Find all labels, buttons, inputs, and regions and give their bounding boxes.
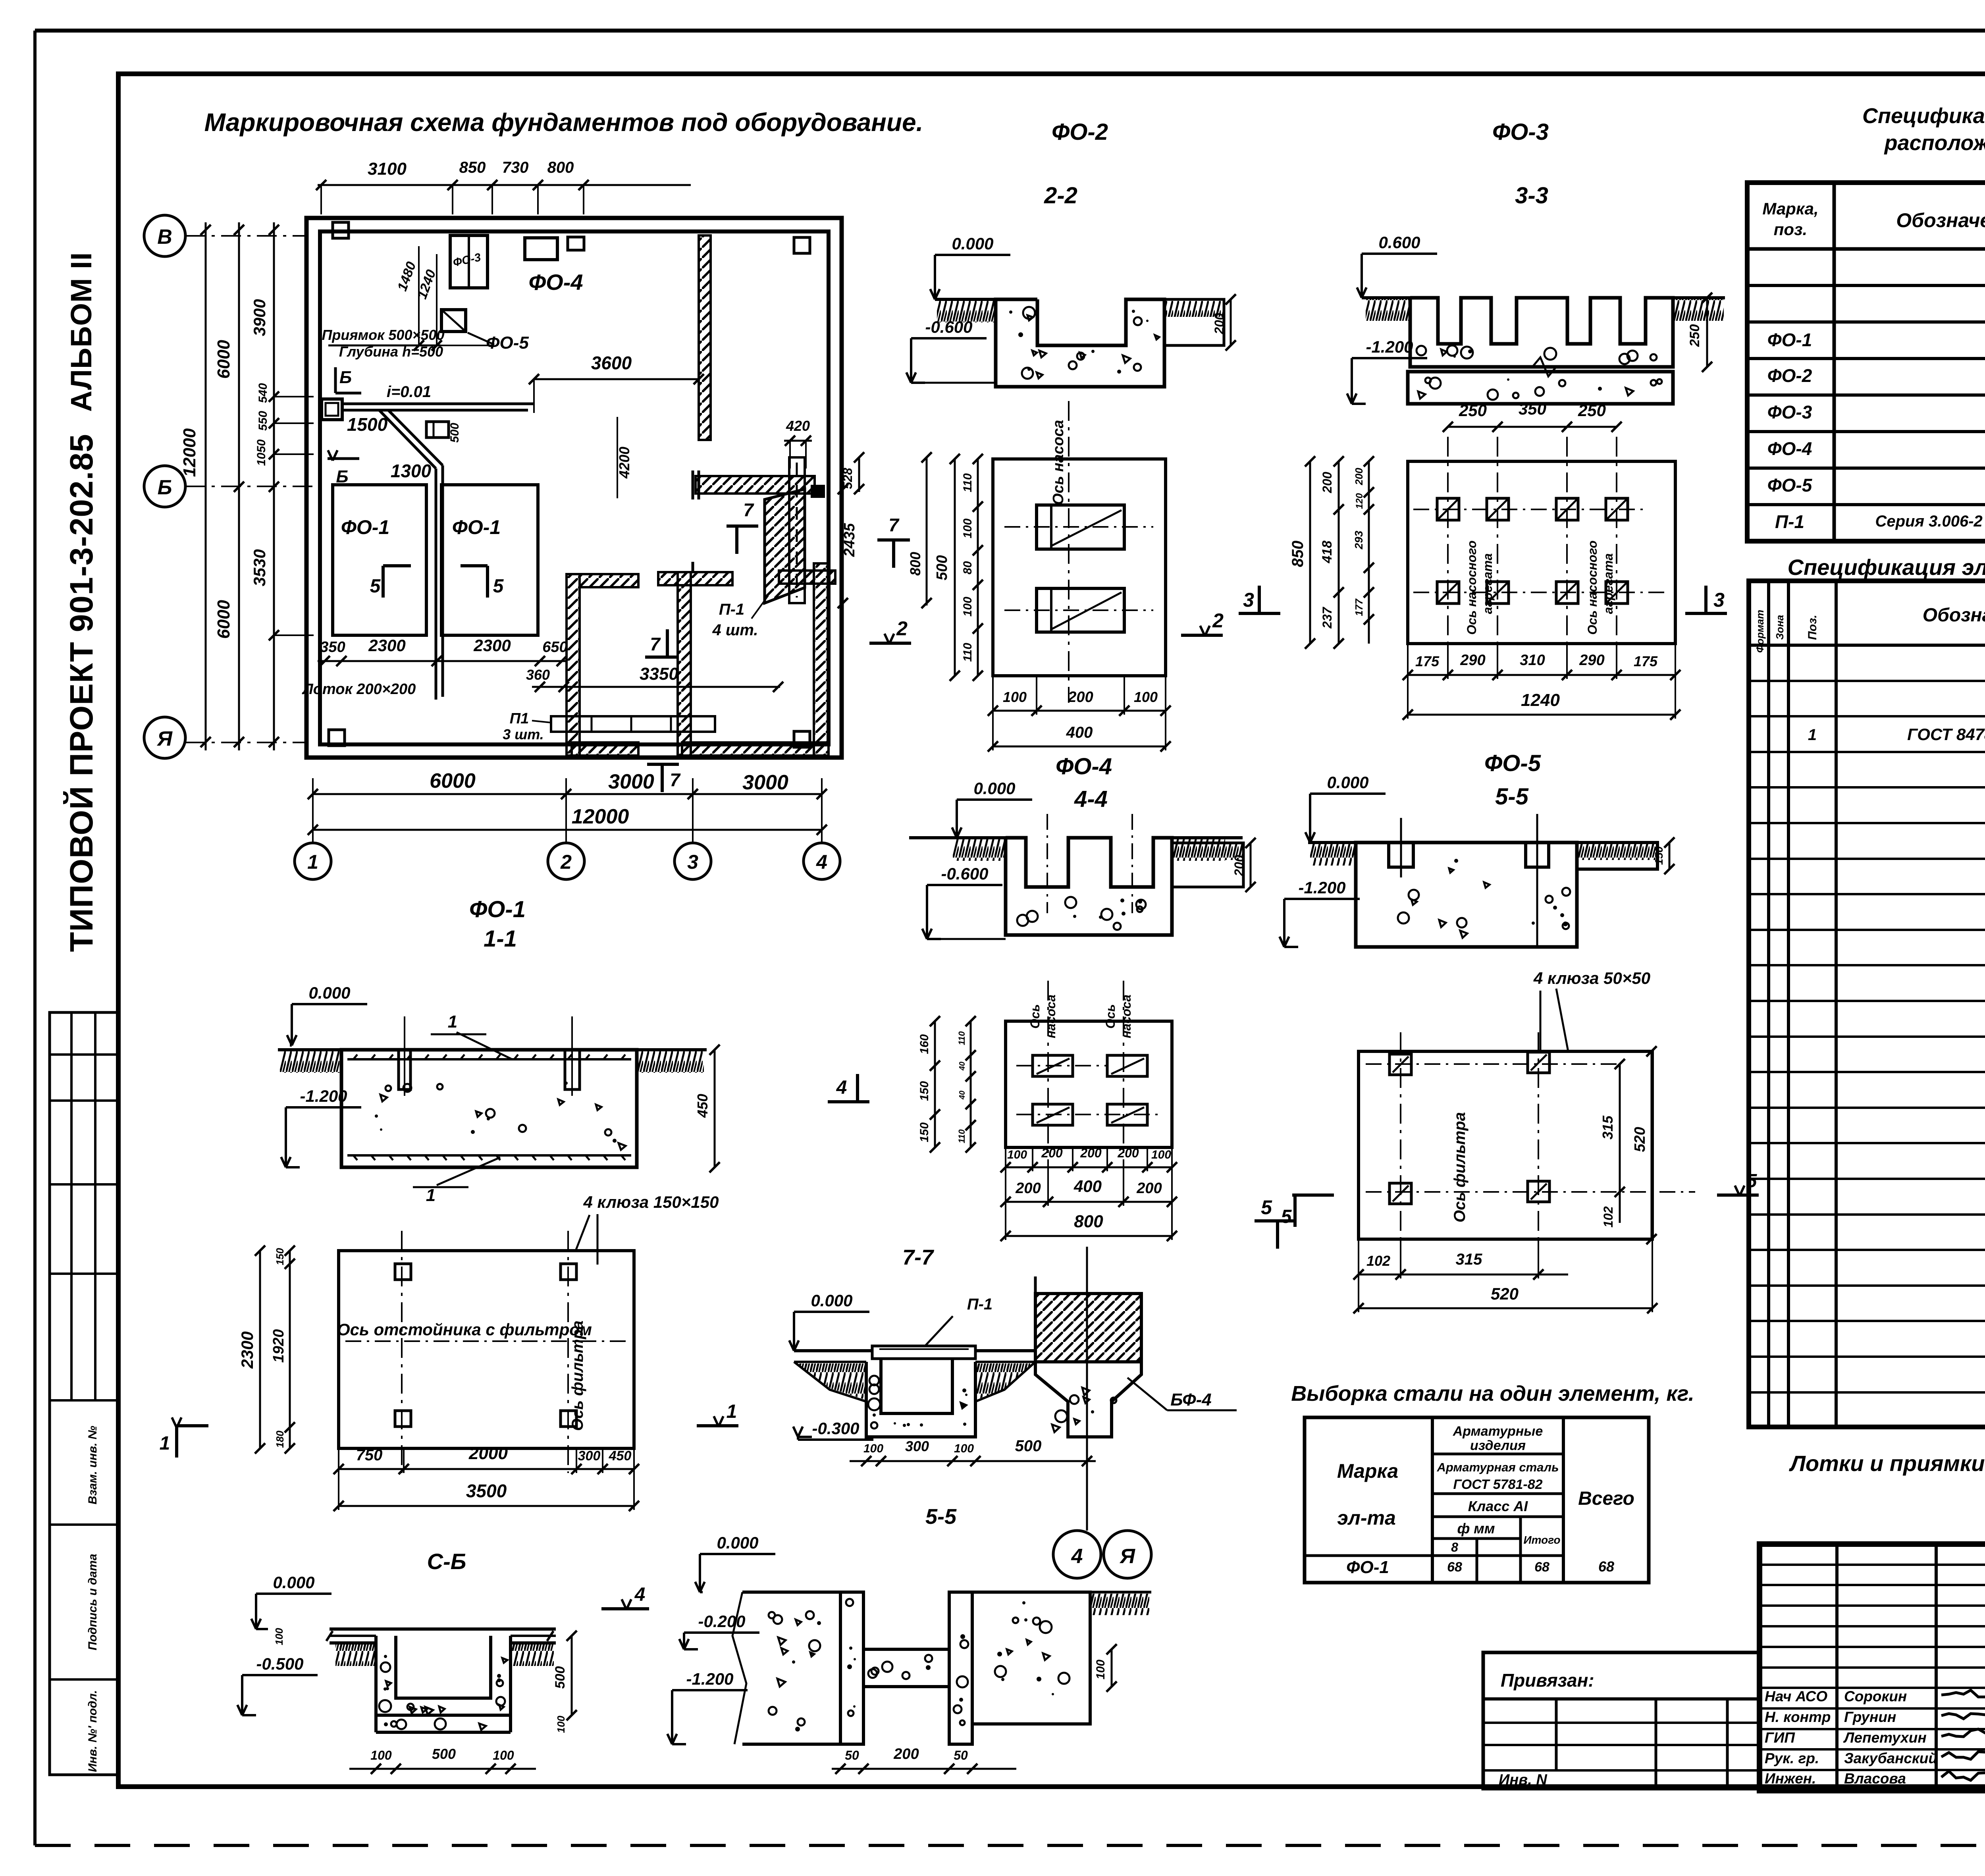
section 1-1 right dim 450	[714, 1050, 716, 1167]
plan 1-1 vertical axes	[401, 1231, 403, 1473]
spec table 1 grid	[1747, 183, 1985, 541]
privyazan box grid	[1483, 1722, 1760, 1724]
plan 2-2 bottom dims	[993, 710, 1166, 712]
svg-text:Лоток 200×200: Лоток 200×200	[302, 681, 416, 698]
svg-text:100: 100	[954, 1442, 974, 1455]
svg-text:5-5: 5-5	[925, 1505, 957, 1529]
plan pit walls lower middle - left L	[567, 574, 580, 756]
section 7-7 bottom dims	[850, 1460, 1096, 1462]
svg-text:293: 293	[1353, 530, 1365, 549]
section 2-2 ground right	[1164, 299, 1224, 345]
svg-text:П-1: П-1	[1775, 511, 1804, 532]
svg-text:4 клюза 150×150: 4 клюза 150×150	[583, 1193, 719, 1211]
svg-text:7: 7	[650, 634, 661, 654]
svg-text:6000: 6000	[214, 340, 233, 379]
svg-text:150: 150	[918, 1122, 931, 1142]
svg-text:200: 200	[1117, 1146, 1139, 1160]
svg-text:120: 120	[1354, 493, 1365, 509]
svg-text:100: 100	[961, 597, 974, 617]
svg-text:ФО-3: ФО-3	[1492, 119, 1549, 145]
svg-text:250: 250	[1687, 324, 1702, 347]
svg-text:100: 100	[863, 1442, 883, 1455]
section marks 2 and 3 between plans	[1181, 634, 1223, 637]
svg-text:5: 5	[370, 576, 381, 597]
plan building inner wall	[320, 231, 829, 744]
svg-text:Зона: Зона	[1774, 615, 1786, 640]
svg-text:2300: 2300	[368, 636, 405, 655]
svg-text:3600: 3600	[591, 353, 632, 373]
plan FO-5 anchor squares	[1389, 1054, 1411, 1075]
plan pit walls lower right corner	[682, 742, 829, 756]
plan dim 350 3350	[532, 686, 780, 688]
svg-text:В: В	[157, 226, 172, 249]
plan channel horizontal	[343, 403, 534, 405]
plan foundation FO-5 block	[441, 310, 466, 332]
plan section mark Б lower	[328, 457, 359, 460]
svg-text:-0.300: -0.300	[812, 1419, 859, 1438]
svg-text:750: 750	[356, 1446, 383, 1464]
svg-text:100: 100	[1007, 1148, 1027, 1161]
svg-text:500: 500	[1015, 1437, 1042, 1455]
svg-text:200: 200	[1080, 1146, 1102, 1160]
svg-text:Ось насоса: Ось насоса	[1050, 420, 1067, 505]
section 5-5 bottom wall 2	[949, 1592, 972, 1744]
plan 4-4 anchor rects	[1033, 1055, 1073, 1076]
svg-text:2: 2	[1212, 609, 1224, 632]
plan 2-2 anchor box lower	[1037, 588, 1124, 632]
svg-text:110: 110	[961, 473, 974, 492]
svg-text:5: 5	[1261, 1196, 1272, 1219]
svg-text:ТИПОВОЙ ПРОЕКТ 901-3-202.85: ТИПОВОЙ ПРОЕКТ 901-3-202.85	[63, 434, 100, 952]
plan FO-5 axes	[1400, 1032, 1401, 1247]
svg-text:3530: 3530	[250, 549, 269, 586]
svg-text:-0.500: -0.500	[256, 1654, 303, 1673]
svg-text:П1: П1	[510, 710, 529, 727]
svg-text:5: 5	[493, 576, 504, 597]
plan right vertical hatched wall	[699, 235, 711, 440]
svg-text:315: 315	[1456, 1251, 1482, 1268]
section 4-4 right dim	[1250, 843, 1252, 887]
plan section mark 7 bottom	[647, 763, 679, 766]
svg-text:1300: 1300	[391, 461, 432, 481]
svg-text:Марка: Марка	[1337, 1460, 1398, 1482]
svg-text:400: 400	[1066, 724, 1093, 741]
section 5-5 ground left	[1308, 841, 1356, 844]
svg-text:i=0.01: i=0.01	[387, 383, 431, 401]
svg-text:100: 100	[555, 1716, 567, 1733]
svg-text:4 клюза 50×50: 4 клюза 50×50	[1533, 969, 1650, 987]
section 5-5 embedded anchors	[1389, 843, 1413, 867]
svg-text:Серия 3.006-2 вып.II-2: Серия 3.006-2 вып.II-2	[1875, 513, 1985, 530]
svg-text:500: 500	[934, 555, 950, 580]
left margin stamp strip	[50, 1012, 118, 1775]
svg-text:100: 100	[1134, 689, 1158, 705]
svg-text:50: 50	[954, 1748, 968, 1762]
svg-text:Привязан:: Привязан:	[1501, 1670, 1594, 1691]
svg-text:1-1: 1-1	[484, 926, 517, 952]
plan 3-3 dims above	[1448, 426, 1617, 428]
svg-text:Ось насосного: Ось насосного	[1465, 540, 1479, 635]
plan 4-4 body	[1006, 1021, 1172, 1147]
svg-text:1240: 1240	[1521, 690, 1560, 710]
svg-text:100: 100	[1151, 1148, 1171, 1161]
svg-text:200: 200	[1068, 689, 1093, 706]
svg-text:200: 200	[1320, 472, 1334, 494]
plan 4-4 bottom dims	[1006, 1166, 1172, 1168]
svg-text:Взам. инв. №: Взам. инв. №	[86, 1426, 99, 1504]
section mark 5 right of plan 4-4	[1255, 1219, 1296, 1222]
plan plates P1 row	[551, 716, 715, 732]
svg-text:ФО-1: ФО-1	[1346, 1558, 1389, 1577]
svg-text:250: 250	[1459, 401, 1487, 420]
svg-text:12000: 12000	[180, 428, 199, 477]
section 5-5 bottom left mass	[742, 1592, 840, 1744]
svg-text:500: 500	[553, 1666, 568, 1689]
section 5-5 bottom ground right	[1090, 1591, 1151, 1594]
svg-text:100: 100	[1003, 689, 1027, 705]
svg-text:Б: Б	[339, 368, 352, 387]
svg-text:эл-та: эл-та	[1337, 1507, 1396, 1529]
svg-text:Марка,: Марка,	[1762, 199, 1818, 218]
svg-text:3350: 3350	[640, 664, 678, 684]
svg-text:2-2: 2-2	[1044, 183, 1077, 208]
svg-text:Закубанский: Закубанский	[1844, 1750, 1937, 1766]
section C-Б floor slabs	[330, 1627, 556, 1631]
svg-text:300: 300	[578, 1448, 601, 1463]
svg-text:1920: 1920	[270, 1329, 287, 1363]
svg-text:520: 520	[1632, 1127, 1648, 1152]
svg-text:Ось фильтра: Ось фильтра	[1451, 1112, 1469, 1222]
svg-text:-1.200: -1.200	[686, 1670, 733, 1688]
svg-text:180: 180	[274, 1431, 286, 1448]
plan grid circle А	[144, 717, 185, 758]
svg-text:150: 150	[1653, 846, 1665, 865]
title block outer	[1760, 1544, 1985, 1791]
svg-text:ФО-4: ФО-4	[1056, 754, 1112, 779]
svg-text:2000: 2000	[468, 1444, 508, 1463]
svg-text:200: 200	[1212, 313, 1226, 335]
section 2-2 concrete body	[996, 299, 1164, 387]
plan section mark 5 left	[382, 566, 385, 598]
svg-text:3: 3	[1243, 589, 1254, 611]
plan column circles 1-4	[295, 843, 331, 879]
plan right horizontal hatched beam	[696, 476, 815, 494]
section 5-5 bottom right mass	[972, 1592, 1090, 1724]
svg-text:7-7: 7-7	[902, 1246, 935, 1269]
plan top dimension chain 3100 850 730 800	[318, 184, 691, 186]
svg-text:4: 4	[634, 1584, 646, 1605]
section C-Б pit walls	[376, 1636, 511, 1715]
plan section mark 7 mid	[645, 656, 677, 659]
plan 4-4 section mark 4 left	[828, 1100, 869, 1103]
svg-text:насоса: насоса	[1044, 995, 1058, 1038]
svg-text:ФО-1: ФО-1	[1767, 330, 1812, 350]
svg-text:Инв. N: Инв. N	[1499, 1772, 1548, 1788]
svg-text:ФО-1: ФО-1	[469, 897, 526, 922]
svg-text:Класс АI: Класс АI	[1468, 1498, 1528, 1514]
svg-text:ФО-1: ФО-1	[452, 516, 501, 538]
svg-text:450: 450	[694, 1094, 711, 1118]
svg-text:агрегата: агрегата	[1480, 553, 1495, 614]
svg-text:160: 160	[918, 1034, 931, 1054]
svg-text:ФО-4: ФО-4	[528, 270, 583, 295]
svg-text:80: 80	[961, 561, 974, 575]
svg-text:68: 68	[1534, 1560, 1549, 1575]
svg-text:ФО-2: ФО-2	[1767, 365, 1812, 386]
plan channel small box	[426, 422, 449, 438]
svg-text:310: 310	[1520, 652, 1545, 669]
plan pit walls lower middle - T wall	[678, 572, 691, 756]
section mark 3 right of plan 3-3	[1685, 612, 1727, 615]
svg-text:1050: 1050	[255, 439, 268, 466]
svg-text:Я: Я	[156, 727, 173, 750]
section 5-5 bottom right dim 100	[1111, 1649, 1113, 1687]
svg-text:1: 1	[307, 851, 318, 873]
section 3-3 ground right	[1673, 296, 1725, 299]
svg-text:Грунин: Грунин	[1844, 1709, 1896, 1725]
plan right hatched parallelogram	[765, 489, 805, 603]
svg-text:850: 850	[1289, 541, 1307, 567]
section 1-1 speckles	[375, 1070, 626, 1150]
svg-text:3500: 3500	[466, 1481, 507, 1501]
plan foundation FO-1 left	[333, 485, 426, 635]
svg-text:-1.200: -1.200	[1366, 337, 1413, 356]
plan left dimension chain 12000	[205, 222, 207, 750]
svg-text:550: 550	[256, 411, 270, 431]
svg-text:3 шт.: 3 шт.	[503, 726, 544, 742]
svg-text:поз.: поз.	[1774, 220, 1807, 239]
plan FO-5 body	[1359, 1051, 1652, 1239]
svg-text:500: 500	[448, 423, 461, 443]
svg-text:50: 50	[845, 1748, 859, 1762]
svg-text:3000: 3000	[742, 771, 788, 794]
svg-text:ФО-1: ФО-1	[341, 516, 389, 538]
svg-text:3000: 3000	[608, 770, 654, 793]
section 3-3 right dim 250	[1706, 298, 1708, 367]
plan 1-1 body	[339, 1251, 634, 1448]
section 5-5 bottom wall 1	[840, 1592, 863, 1744]
svg-text:-1.200: -1.200	[1298, 878, 1345, 897]
svg-text:800: 800	[907, 552, 923, 576]
svg-text:Выборка стали на один элемент,: Выборка стали на один элемент, кг.	[1291, 1382, 1694, 1406]
svg-text:Обозначение: Обозначение	[1923, 605, 1985, 626]
svg-text:100: 100	[493, 1748, 514, 1762]
plan foundation FO-1 right	[441, 485, 538, 635]
svg-text:0.000: 0.000	[717, 1533, 758, 1552]
plan section mark 5 right	[486, 566, 489, 598]
svg-text:177: 177	[1353, 598, 1365, 616]
section 5-5 bottom slab	[863, 1649, 949, 1687]
svg-text:1: 1	[160, 1433, 170, 1454]
svg-text:0.000: 0.000	[1327, 773, 1368, 792]
plan 1-1 bottom dims	[339, 1468, 634, 1470]
svg-text:102: 102	[1366, 1253, 1390, 1269]
svg-text:П-1: П-1	[967, 1296, 992, 1313]
plan bottom inner dims 350 2300 2300 650	[318, 660, 568, 662]
section C-Б right dims	[571, 1636, 573, 1715]
section 1-1 body	[341, 1050, 637, 1167]
svg-text:102: 102	[1601, 1206, 1615, 1228]
plan 3-3 body	[1408, 461, 1675, 644]
svg-text:0.000: 0.000	[952, 234, 993, 253]
section 5-5 right dim 150	[1669, 843, 1671, 869]
plan 2-2 left dim chain	[977, 459, 979, 676]
plan right lower hatched beam	[779, 571, 835, 584]
plan 4-4 left dims	[934, 1021, 936, 1147]
svg-text:БФ-4: БФ-4	[1170, 1390, 1212, 1409]
svg-text:7: 7	[670, 769, 681, 790]
svg-text:Власова: Власова	[1844, 1770, 1906, 1787]
svg-text:418: 418	[1320, 541, 1335, 564]
plan 2-2 anchor box upper	[1037, 505, 1124, 549]
svg-text:Ось насосного: Ось насосного	[1585, 540, 1600, 635]
svg-text:Нач АСО: Нач АСО	[1765, 1688, 1827, 1704]
svg-text:350: 350	[320, 639, 345, 656]
section 5-5 bottom dims	[832, 1768, 1016, 1770]
svg-text:0.000: 0.000	[811, 1291, 852, 1310]
plan foundation FO-3 block	[450, 235, 488, 288]
svg-text:Приямок 500×500: Приямок 500×500	[322, 327, 444, 343]
svg-text:Сорокин: Сорокин	[1844, 1688, 1907, 1704]
svg-text:Итого: Итого	[1523, 1534, 1560, 1546]
svg-text:Маркировочная схема фундамен: Маркировочная схема фундаментов под обор…	[204, 108, 923, 137]
plan 2-2 pump axis	[1068, 401, 1070, 703]
svg-text:Обозначение: Обозначение	[1896, 209, 1985, 231]
plan 2-2 body	[993, 459, 1166, 676]
svg-text:150: 150	[274, 1248, 286, 1265]
section 1-1 anchor slots	[399, 1050, 410, 1089]
plan left dimension chain 3900 540 550 1050 3530	[273, 222, 275, 750]
plan channel diagonal and vertical	[379, 410, 436, 469]
svg-text:Формат: Формат	[1754, 610, 1766, 653]
section 4-4 axes through notches	[1046, 814, 1048, 913]
svg-text:200: 200	[1041, 1146, 1063, 1160]
svg-text:4200: 4200	[616, 447, 632, 479]
svg-text:300: 300	[905, 1438, 929, 1454]
plan section mark Б upper	[334, 367, 337, 393]
svg-text:Б: Б	[158, 476, 172, 499]
svg-text:Я: Я	[1119, 1545, 1135, 1568]
svg-text:360: 360	[526, 667, 550, 683]
plan section mark 2 right	[869, 642, 911, 645]
svg-text:4: 4	[836, 1077, 847, 1098]
svg-text:68: 68	[1447, 1560, 1462, 1575]
svg-text:400: 400	[1073, 1177, 1102, 1195]
svg-text:1500: 1500	[347, 414, 388, 435]
svg-text:0.600: 0.600	[1378, 233, 1420, 252]
svg-text:Ось фильтра: Ось фильтра	[569, 1321, 586, 1431]
svg-text:3900: 3900	[250, 299, 269, 336]
svg-text:2300: 2300	[473, 636, 511, 655]
svg-text:Инв. №' подл.: Инв. №' подл.	[86, 1690, 99, 1772]
svg-text:0.000: 0.000	[273, 1573, 314, 1592]
svg-text:Спецификация элементов моноли: Спецификация элементов монолитных констр…	[1788, 555, 1985, 580]
svg-text:100: 100	[961, 519, 974, 538]
svg-text:420: 420	[786, 418, 810, 434]
svg-text:-0.200: -0.200	[698, 1612, 745, 1631]
svg-text:175: 175	[1634, 653, 1658, 669]
section 7-7 foundation BF-4	[1035, 1362, 1141, 1437]
svg-text:250: 250	[1578, 401, 1606, 420]
svg-text:Лотки и приямки выполнить: Лотки и приямки выполнить из бетона марк…	[1788, 1451, 1985, 1476]
svg-text:315: 315	[1600, 1115, 1616, 1139]
svg-text:68: 68	[1598, 1558, 1614, 1575]
section 5-5 body	[1356, 843, 1577, 947]
section 2-2 ground left	[935, 298, 996, 301]
svg-text:0.000: 0.000	[308, 983, 350, 1002]
svg-text:6000: 6000	[430, 769, 476, 792]
svg-text:5-5: 5-5	[1495, 784, 1529, 810]
section 1-1 top rebar	[347, 1058, 631, 1060]
svg-text:850: 850	[459, 159, 486, 176]
svg-text:200: 200	[1232, 855, 1246, 877]
svg-text:175: 175	[1415, 653, 1440, 669]
svg-text:ФО-2: ФО-2	[1052, 119, 1108, 145]
plan right outer dim 800	[926, 457, 928, 605]
svg-text:6000: 6000	[214, 600, 233, 639]
svg-text:4-4: 4-4	[1074, 786, 1108, 812]
svg-text:290: 290	[1579, 652, 1604, 669]
plan FO-5 right dims	[1619, 1064, 1621, 1223]
outer sheet border	[35, 29, 1985, 33]
section 7-7 plate P-1	[872, 1346, 975, 1359]
svg-text:-0.600: -0.600	[925, 318, 972, 336]
section 5-5 right slab	[1577, 843, 1657, 869]
svg-text:2300: 2300	[238, 1331, 256, 1369]
svg-text:Поз.: Поз.	[1806, 615, 1819, 640]
svg-text:4 шт.: 4 шт.	[712, 621, 758, 639]
svg-text:290: 290	[1460, 652, 1485, 669]
svg-text:АЛЬБОМ II: АЛЬБОМ II	[65, 252, 98, 412]
svg-text:ГОСТ 5781-82: ГОСТ 5781-82	[1453, 1477, 1542, 1492]
section 7-7 ground slopes	[794, 1362, 866, 1402]
plan grid circle Б	[144, 466, 185, 507]
svg-text:Арматурная сталь: Арматурная сталь	[1436, 1460, 1559, 1474]
section 7-7 hatched column	[1035, 1294, 1141, 1362]
svg-text:1: 1	[727, 1401, 737, 1422]
plan section mark 7 right	[877, 538, 910, 542]
plan 1-1 horizontal axis with label	[345, 1340, 631, 1342]
svg-text:расположенной на листе.: расположенной на листе.	[1884, 131, 1985, 155]
svg-text:1: 1	[426, 1186, 436, 1205]
svg-text:40: 40	[958, 1062, 967, 1071]
svg-text:237: 237	[1320, 606, 1334, 629]
svg-text:8: 8	[1451, 1540, 1458, 1554]
svg-text:2: 2	[560, 851, 572, 873]
svg-text:800: 800	[547, 159, 574, 176]
svg-text:С-Б: С-Б	[427, 1549, 466, 1574]
svg-text:ГИП: ГИП	[1765, 1729, 1795, 1746]
section C-Б bottom dims	[349, 1768, 536, 1770]
svg-text:200: 200	[893, 1746, 919, 1762]
plan 3-3 bottom dims	[1408, 674, 1675, 676]
svg-text:100: 100	[273, 1628, 285, 1645]
section C-Б ground hatch	[335, 1645, 375, 1666]
svg-text:Всего: Всего	[1578, 1488, 1634, 1509]
svg-text:ФО-5: ФО-5	[1484, 750, 1541, 776]
svg-text:100: 100	[1094, 1660, 1107, 1679]
svg-text:110: 110	[961, 643, 974, 662]
svg-text:200: 200	[1353, 468, 1365, 486]
svg-text:7: 7	[888, 515, 900, 535]
plan grid circle B	[144, 215, 185, 256]
svg-text:520: 520	[1491, 1284, 1519, 1303]
svg-text:Подпись и дата: Подпись и дата	[86, 1554, 99, 1650]
svg-text:ФО-5: ФО-5	[1767, 475, 1813, 496]
plan right wall black square	[811, 485, 825, 498]
section 1-1 bottom rebar	[347, 1154, 631, 1157]
section 3-3 ground left	[1362, 296, 1410, 299]
